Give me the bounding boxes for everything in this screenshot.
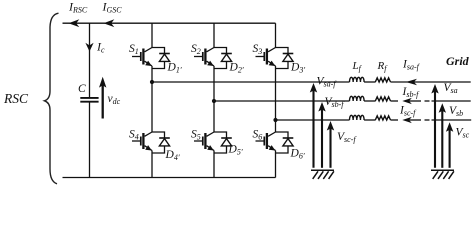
wire phase a [152, 81, 350, 83]
wire phase c grid side [432, 119, 472, 121]
transistor S4 (IGBT) [132, 132, 152, 151]
transistor S1 (IGBT) [132, 48, 152, 67]
transistor S5 (IGBT) [194, 132, 214, 151]
resistor Rf phase b [375, 97, 390, 101]
voltage arrow V_sb-f [321, 109, 323, 168]
node phase b junction [212, 99, 216, 103]
wire phase c dash [425, 119, 430, 121]
wire phase b mid [364, 100, 375, 102]
diode D1' [152, 48, 170, 69]
wire phase b stub [391, 100, 399, 102]
wire phase a mid [364, 81, 375, 83]
transistor S2 (IGBT) [194, 48, 214, 67]
node phase c junction [273, 118, 277, 122]
ground (grid side) [431, 170, 454, 179]
diode D6' [276, 132, 294, 153]
wire phase c stub [391, 119, 399, 121]
wire phase c [276, 119, 350, 121]
inductor Lf phase a [350, 77, 365, 82]
diode D3' [276, 48, 294, 69]
inductor Lf phase b [350, 96, 365, 101]
voltage arrow V_sc [449, 129, 451, 168]
wire leg 3 lower [275, 151, 277, 178]
wire top DC bus [63, 22, 276, 24]
wire phase b dash [425, 100, 430, 102]
inductor Lf phase c [350, 115, 365, 120]
wire leg 2 middle [213, 66, 215, 132]
resistor Rf phase a [375, 78, 390, 82]
svg-text:C: C [78, 83, 86, 95]
diode D4' [152, 132, 170, 153]
wire leg 2 upper [213, 23, 215, 47]
voltage arrow V_sb [441, 110, 443, 168]
ground (filter side) [311, 170, 334, 179]
transistor S3 (IGBT) [256, 48, 276, 67]
current arrow I_c [85, 43, 93, 52]
wire leg 2 lower [213, 151, 215, 178]
wire leg 3 upper [275, 23, 277, 47]
current arrow I_RSC [69, 19, 80, 27]
brace grouping RSC [45, 13, 59, 184]
voltage arrow V_sc-f [329, 128, 331, 168]
wire leg 1 upper [151, 23, 153, 47]
wire phase c mid [364, 119, 375, 121]
voltage arrow V_sa [434, 91, 436, 168]
resistor Rf phase c [375, 116, 390, 120]
svg-text:RSC: RSC [3, 91, 29, 106]
transistor S6 (IGBT) [256, 132, 276, 151]
wire leg 1 lower [151, 151, 153, 178]
wire phase a to grid [391, 81, 471, 83]
diode D5' [214, 132, 232, 153]
node phase a junction [150, 80, 154, 84]
wire leg 1 middle [151, 66, 153, 132]
wire phase b grid side [432, 100, 471, 102]
current arrow I_sc-f [402, 117, 412, 123]
voltage arrow v_dc [102, 85, 104, 119]
wire phase b [214, 100, 350, 102]
capacitor C plates [80, 98, 98, 102]
current arrow I_sb-f [402, 98, 412, 104]
wire capacitor branch (top) [89, 23, 91, 97]
wire bottom DC bus [63, 177, 276, 179]
current arrow I_sa-f [406, 79, 417, 85]
voltage arrow V_sa-f [312, 90, 314, 168]
wire leg 3 middle [275, 66, 277, 132]
diode D2' [214, 48, 232, 69]
svg-text:Grid: Grid [446, 54, 470, 68]
current arrow I_GSC [104, 19, 115, 27]
wire capacitor branch (bottom) [89, 102, 91, 177]
